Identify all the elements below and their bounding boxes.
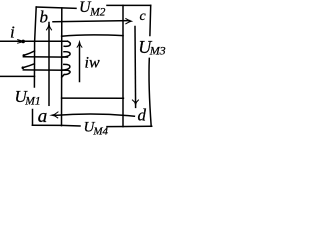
arrowhead up of iw: [77, 40, 82, 48]
core window top line: [62, 35, 123, 36]
wire top-right segment UM2 to c: [107, 4, 151, 6]
coil right arc 2: [62, 52, 71, 57]
coil left loop 1 lower arm / turn line 1: [23, 56, 67, 58]
wire bottom-left segment UM4 to a corner: [32, 124, 80, 127]
arrowhead of current i : barbs and junction dot: [17, 40, 22, 44]
inductor L1 coil: entry wire carrying current i: [0, 40, 68, 42]
wire right segment c to UM3: [149, 5, 152, 35]
contour top side b-c arrow line: [53, 21, 130, 22]
svg-text:d: d: [138, 105, 147, 124]
svg-text:b: b: [40, 8, 49, 27]
svg-text:iw: iw: [85, 55, 100, 72]
arrowhead right toward c: [125, 18, 133, 24]
core window bottom line: [62, 97, 124, 99]
svg-text:a: a: [38, 106, 48, 127]
coil left loop 2 lower arm / turn line 2: [23, 69, 67, 71]
svg-text:i: i: [10, 23, 15, 42]
core leg left edge V3: [61, 8, 63, 126]
iw arrow stem: [79, 44, 81, 82]
svg-text:c: c: [140, 9, 147, 24]
coil right arc 3: [62, 64, 70, 70]
coil right arc 1: [64, 41, 70, 46]
contour bottom side d-a line: [55, 114, 134, 116]
coil loop 2 point blob: [22, 66, 25, 69]
contour left side a-b with up arrow stem: [48, 23, 50, 106]
arrowhead left toward a: [49, 112, 58, 119]
wire top-left segment b to UM2: [36, 7, 76, 8]
contour right side c-d arrow line: [134, 27, 137, 108]
junction dot on entry wire: [21, 40, 25, 44]
coil left loop 1 upper arm: [25, 51, 35, 55]
arrowhead up toward b: [46, 22, 52, 30]
arrowhead down toward d: [132, 100, 139, 107]
core leg right edge V5: [122, 5, 124, 126]
coil left loop 2 upper arm: [24, 64, 35, 68]
wire left segment lower a to UM1: [32, 110, 34, 126]
coil exit wire: [0, 75, 35, 77]
coil loop 1 point blob: [23, 54, 26, 57]
wire right segment UM3 to d corner: [149, 58, 151, 126]
coil right arc 4 tail: [62, 70, 70, 77]
wire bottom-right segment d to UM4: [107, 125, 152, 127]
wire left segment upper UM1 to b: [34, 7, 36, 87]
